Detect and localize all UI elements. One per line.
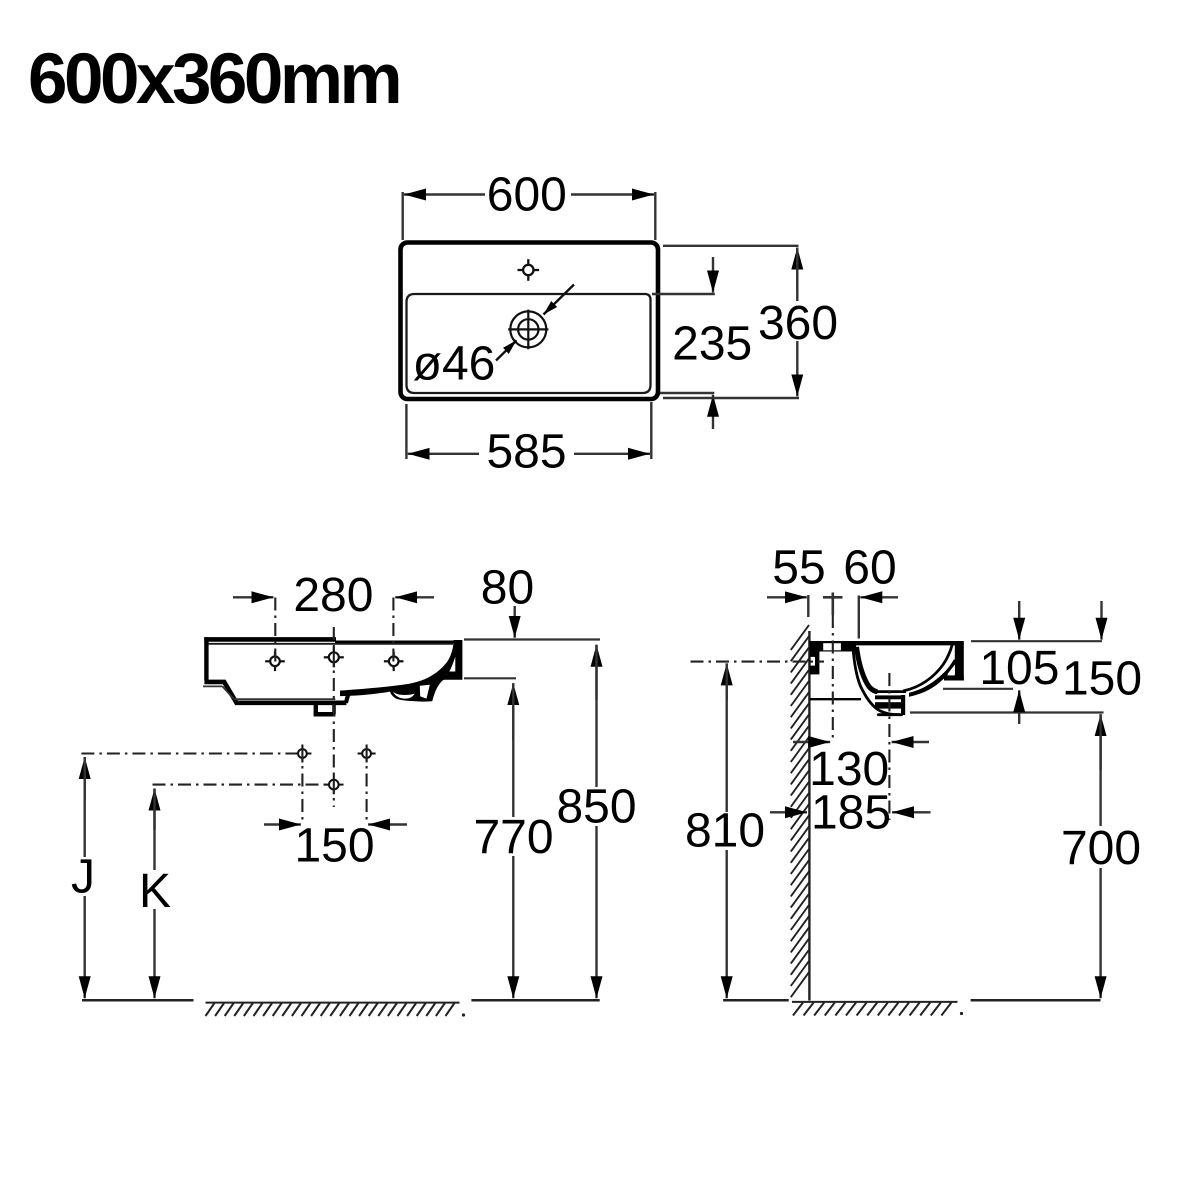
side view axis lines (dash-dot) <box>691 615 890 820</box>
bowl front rising curve <box>903 645 952 692</box>
svg-text:235: 235 <box>672 318 752 371</box>
dimension 850 <box>595 645 597 998</box>
centerline left tap hole <box>274 598 276 669</box>
centerline left fixing hole <box>301 748 303 824</box>
dimension 810 <box>726 663 728 998</box>
dimension 150 (front) <box>264 823 407 825</box>
bowl inner bottom <box>873 690 906 693</box>
centerline drain axis (side) <box>888 673 890 820</box>
deck section (near wall) with tap hole slot <box>810 641 857 652</box>
centerline drain axis (front) <box>333 627 335 807</box>
drain leader arrow SW <box>496 340 517 360</box>
basin lower-right body (filled) <box>340 640 462 702</box>
svg-text:585: 585 <box>486 426 566 479</box>
basin deck inner line <box>209 643 454 645</box>
svg-text:810: 810 <box>685 805 765 858</box>
basin top extension line (right) <box>464 638 600 640</box>
centerline K datum <box>153 784 330 786</box>
basin underside thin line <box>203 685 223 687</box>
basin outer rim (top view) <box>401 243 659 400</box>
basin left edge <box>204 637 208 680</box>
ground line (side view) <box>723 999 789 1002</box>
svg-text:80: 80 <box>481 562 534 615</box>
drain flange bars <box>875 695 905 699</box>
dimension 770 <box>512 683 514 998</box>
60 extension line <box>858 596 860 639</box>
svg-text:850: 850 <box>556 781 636 834</box>
centerline hole height datum (side) <box>691 661 825 663</box>
wall hatch <box>791 625 809 997</box>
fixing hole right <box>358 745 376 763</box>
80 arrow <box>514 606 516 638</box>
ground hatch (side view) <box>792 1001 958 1003</box>
wall extension line above <box>807 595 809 617</box>
basin floor inner thin line <box>234 698 335 700</box>
svg-text:J: J <box>71 851 95 904</box>
svg-text:360: 360 <box>758 297 838 350</box>
mounting hole right <box>384 652 404 672</box>
front rim block <box>955 641 964 680</box>
wall line <box>808 631 810 1001</box>
dimension K <box>153 789 155 999</box>
dimension J <box>83 757 85 998</box>
svg-text:60: 60 <box>843 542 896 595</box>
basin lower-left outline <box>204 682 346 703</box>
55 arrow <box>767 596 807 598</box>
dimension 150 (side) <box>1100 601 1102 640</box>
basin lip extension line (right) <box>464 677 516 679</box>
drain hole symbol (double circle + crosshair) <box>508 310 548 350</box>
dimension 185 <box>770 811 931 813</box>
dimension 235 <box>652 257 715 429</box>
shared cross terminator <box>823 596 843 599</box>
extension line 150 bottom / 700 top <box>910 711 1104 713</box>
siphon trap <box>314 703 318 715</box>
centerline right fixing hole <box>366 748 368 824</box>
extension line 105 bottom <box>943 688 1013 690</box>
basin inner bowl rim (top view) <box>407 294 651 393</box>
60 arrow <box>860 596 898 598</box>
mounting hole center <box>324 647 344 667</box>
dimension 105 <box>1018 601 1020 724</box>
svg-text:ø46: ø46 <box>413 338 496 391</box>
svg-text:150: 150 <box>1062 653 1142 706</box>
white triangle pocket <box>420 685 430 699</box>
fixing hole bottom center <box>324 775 343 794</box>
centerline tap hole axis (side) <box>832 615 834 742</box>
white notch at front rim <box>947 665 955 675</box>
extension line basin top (side) <box>971 640 1102 642</box>
svg-text:150: 150 <box>294 820 374 873</box>
ground hatch (front view) <box>206 1002 460 1004</box>
side extension lines <box>910 641 1104 712</box>
centerline right tap hole <box>392 598 394 669</box>
bowl back inner wall <box>857 647 878 692</box>
front view center axis (dash-dot) <box>81 598 393 825</box>
front apron band <box>909 660 955 697</box>
white corner notch <box>449 657 455 672</box>
svg-text:105: 105 <box>979 642 1059 695</box>
dimension 130 <box>793 741 929 743</box>
centerline J datum <box>81 752 296 754</box>
white D-pocket <box>393 691 415 698</box>
svg-text:700: 700 <box>1061 822 1141 875</box>
svg-text:55: 55 <box>772 542 825 595</box>
mounting hole left <box>265 652 285 672</box>
dimension 585 <box>406 402 651 459</box>
svg-text:770: 770 <box>473 811 553 864</box>
basin top surface <box>810 641 963 645</box>
drain leader arrow NE <box>544 285 575 315</box>
ground line (front view) <box>82 999 194 1002</box>
fixing hole left <box>293 745 311 763</box>
basin top edge <box>204 637 336 642</box>
svg-text:280: 280 <box>293 569 373 622</box>
svg-text:600x360mm: 600x360mm <box>28 40 399 119</box>
dimension 700 (shares arrow with 150 bottom) <box>1099 714 1101 998</box>
back fixing bar <box>810 641 820 674</box>
dimension 280 <box>233 596 434 598</box>
dimension 360 <box>663 246 799 398</box>
svg-text:K: K <box>139 865 171 918</box>
svg-text:600: 600 <box>487 169 567 222</box>
basin underside back edge <box>810 698 861 700</box>
faucet hole symbol <box>518 259 540 281</box>
dimension 600 <box>403 192 656 240</box>
bowl outer shell <box>853 648 900 715</box>
svg-text:185: 185 <box>811 787 891 840</box>
